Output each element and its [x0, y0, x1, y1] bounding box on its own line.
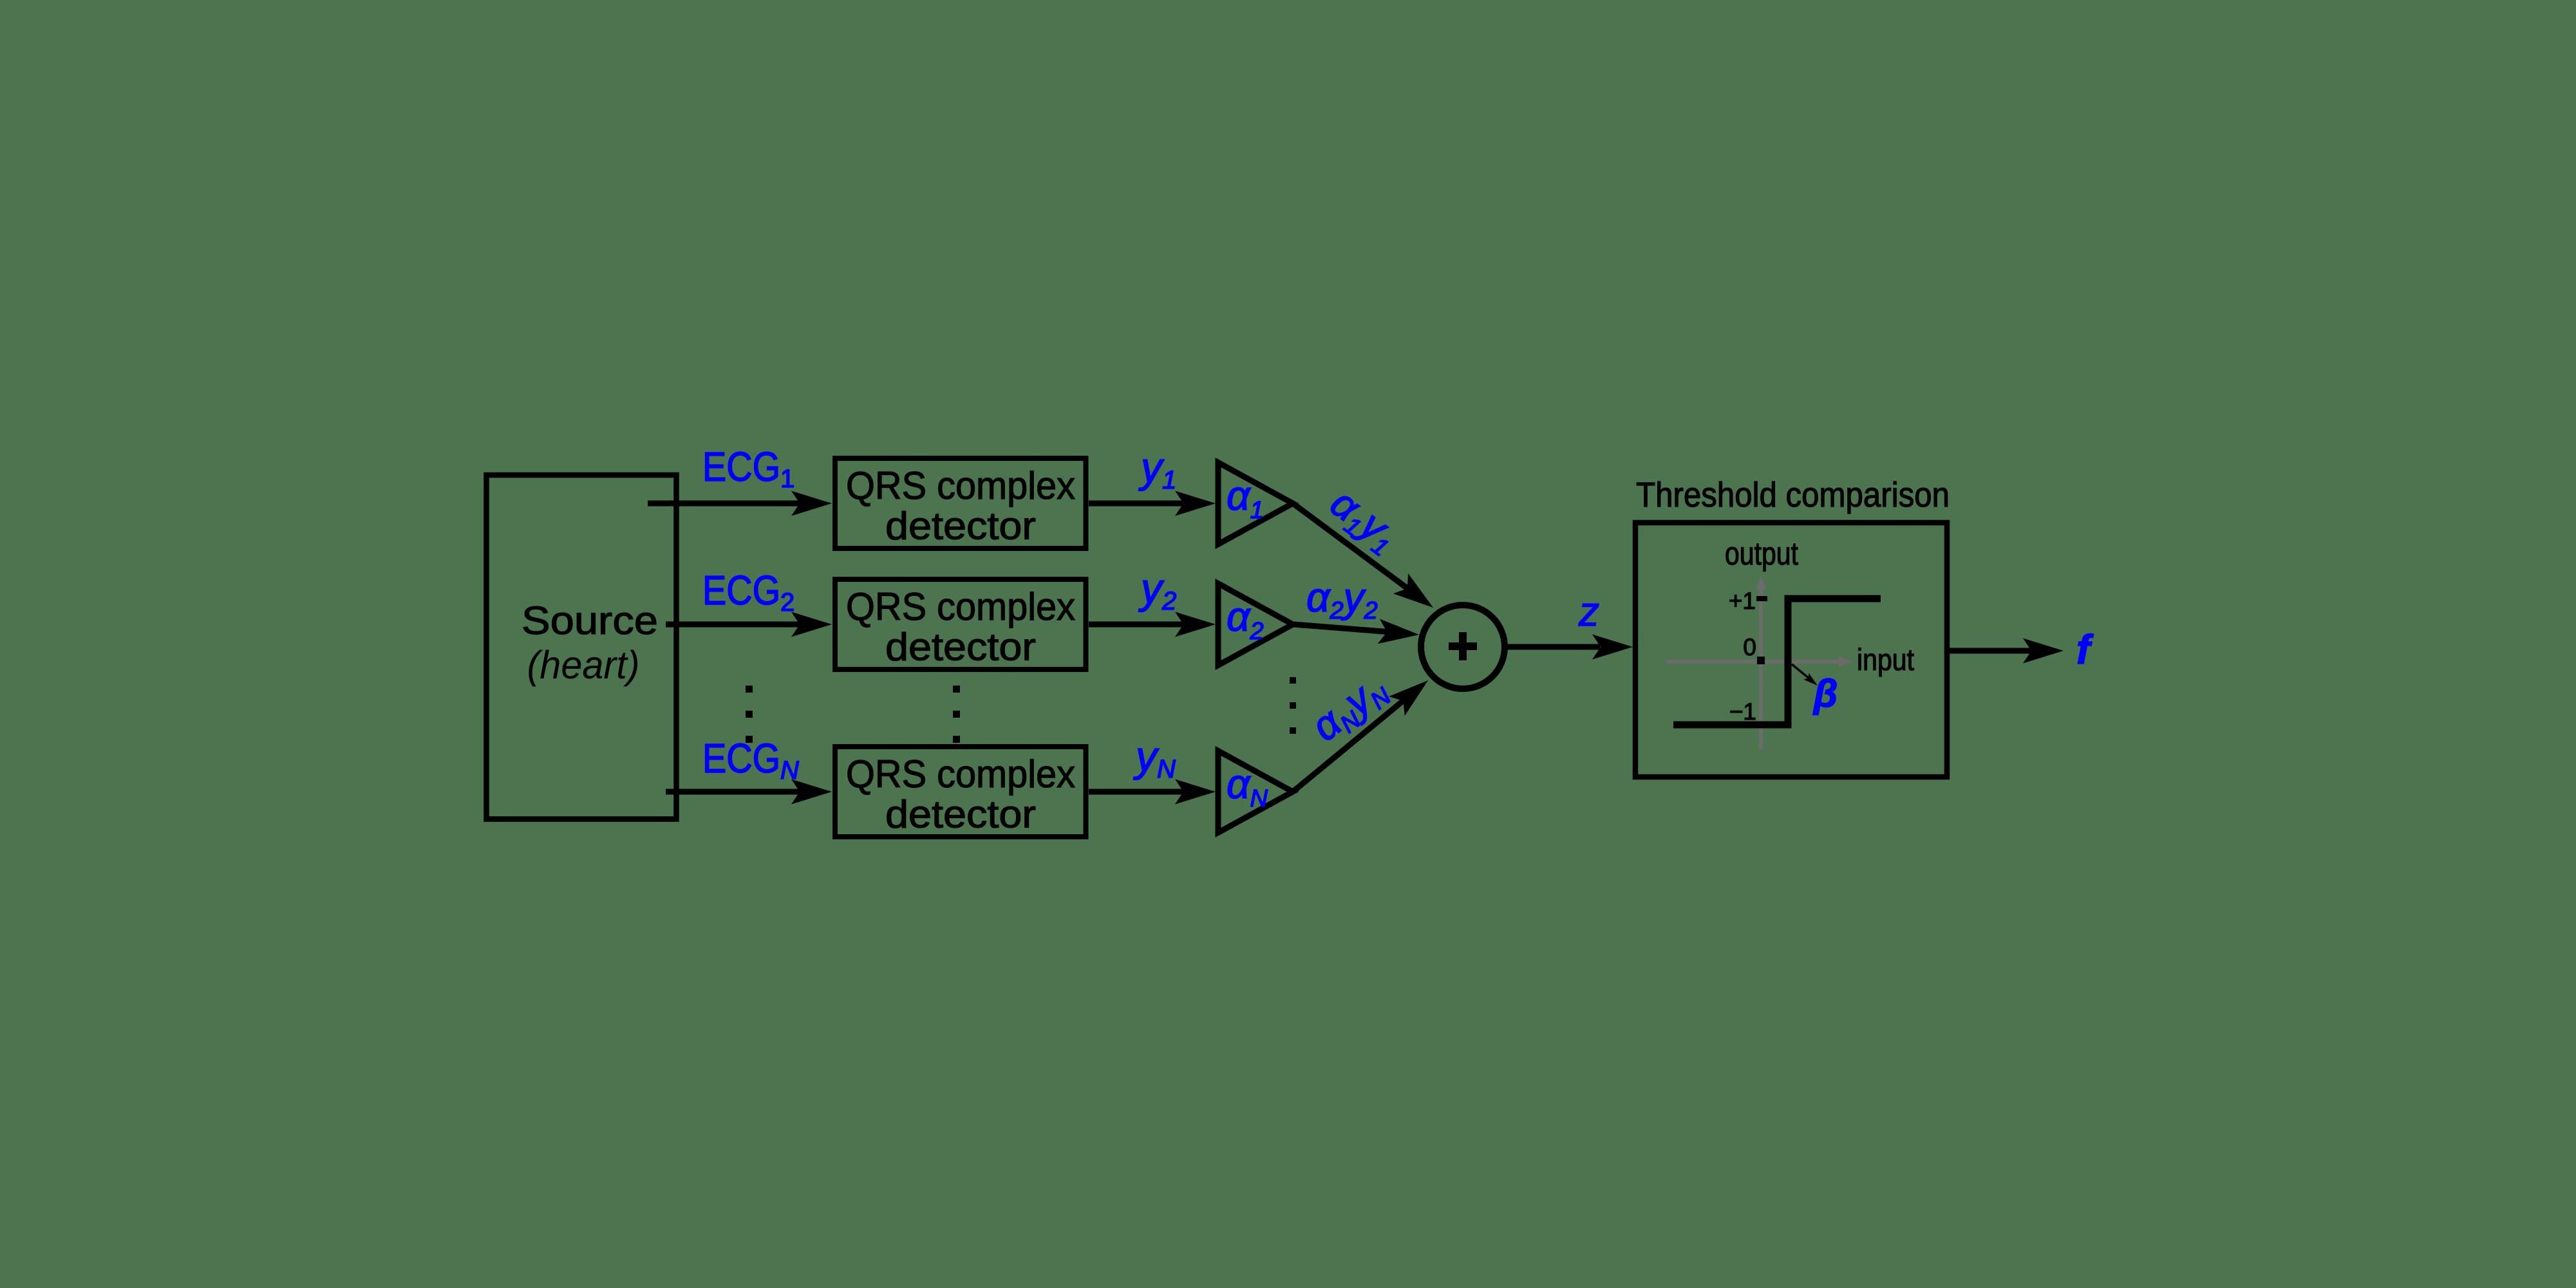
- dots between QRS boxes: [953, 686, 960, 743]
- amplifier triangle aN: [1218, 751, 1293, 833]
- svg-text:output: output: [1725, 536, 1798, 572]
- wire yN: [1089, 779, 1216, 805]
- diagonal wire a2y2 to summer: [1294, 619, 1420, 647]
- svg-text:−1: −1: [1729, 698, 1756, 725]
- label aNyN (rotated): [1302, 664, 1396, 753]
- wire z to threshold: [1505, 635, 1633, 660]
- threshold comparison box: [1635, 523, 1947, 777]
- svg-text:Source: Source: [522, 599, 658, 642]
- svg-text:detector: detector: [885, 793, 1036, 836]
- svg-text:detector: detector: [885, 626, 1036, 669]
- beta arrow: [1792, 664, 1820, 689]
- wire y2: [1089, 612, 1216, 637]
- origin dot: [1757, 657, 1765, 664]
- diagonal wire aNyN to summer: [1293, 671, 1436, 792]
- graph: input axis (gray horizontal): [1667, 657, 1853, 667]
- QRS detector box 1: [835, 458, 1086, 548]
- plus sign: [1449, 632, 1477, 660]
- amplifier triangle a2: [1218, 584, 1293, 666]
- svg-text:QRS complex: QRS complex: [846, 464, 1075, 507]
- svg-text:QRS complex: QRS complex: [846, 752, 1075, 796]
- diagonal wire a1y1 to summer: [1293, 503, 1441, 618]
- svg-text:β: β: [1812, 672, 1838, 715]
- svg-text:(heart): (heart): [527, 643, 640, 687]
- wire f out: [1947, 639, 2064, 664]
- dots between ECG2 and ECGN: [746, 686, 753, 743]
- svg-text:detector: detector: [885, 505, 1036, 548]
- summing junction circle: [1421, 605, 1505, 689]
- svg-text:0: 0: [1743, 634, 1756, 660]
- QRS detector box 3: [835, 747, 1086, 837]
- step function: [1673, 599, 1881, 725]
- svg-text:input: input: [1857, 642, 1914, 677]
- amplifier triangle a1: [1218, 463, 1293, 545]
- svg-text:Threshold comparison: Threshold comparison: [1636, 476, 1950, 514]
- wire ECGN: [666, 779, 832, 805]
- tick +1: [1756, 596, 1767, 601]
- wire ECG2: [666, 612, 832, 637]
- svg-text:QRS complex: QRS complex: [846, 585, 1075, 628]
- svg-text:z: z: [1578, 588, 1599, 635]
- QRS detector box 2: [835, 579, 1086, 669]
- graph: output axis (gray vertical): [1756, 575, 1766, 749]
- label a1y1 (rotated): [1320, 479, 1407, 562]
- source box (heart): [487, 475, 677, 819]
- svg-text:+1: +1: [1729, 588, 1756, 614]
- dots between triangles: [1290, 677, 1296, 734]
- wire y1: [1089, 491, 1216, 516]
- wire ECG1: [648, 491, 832, 516]
